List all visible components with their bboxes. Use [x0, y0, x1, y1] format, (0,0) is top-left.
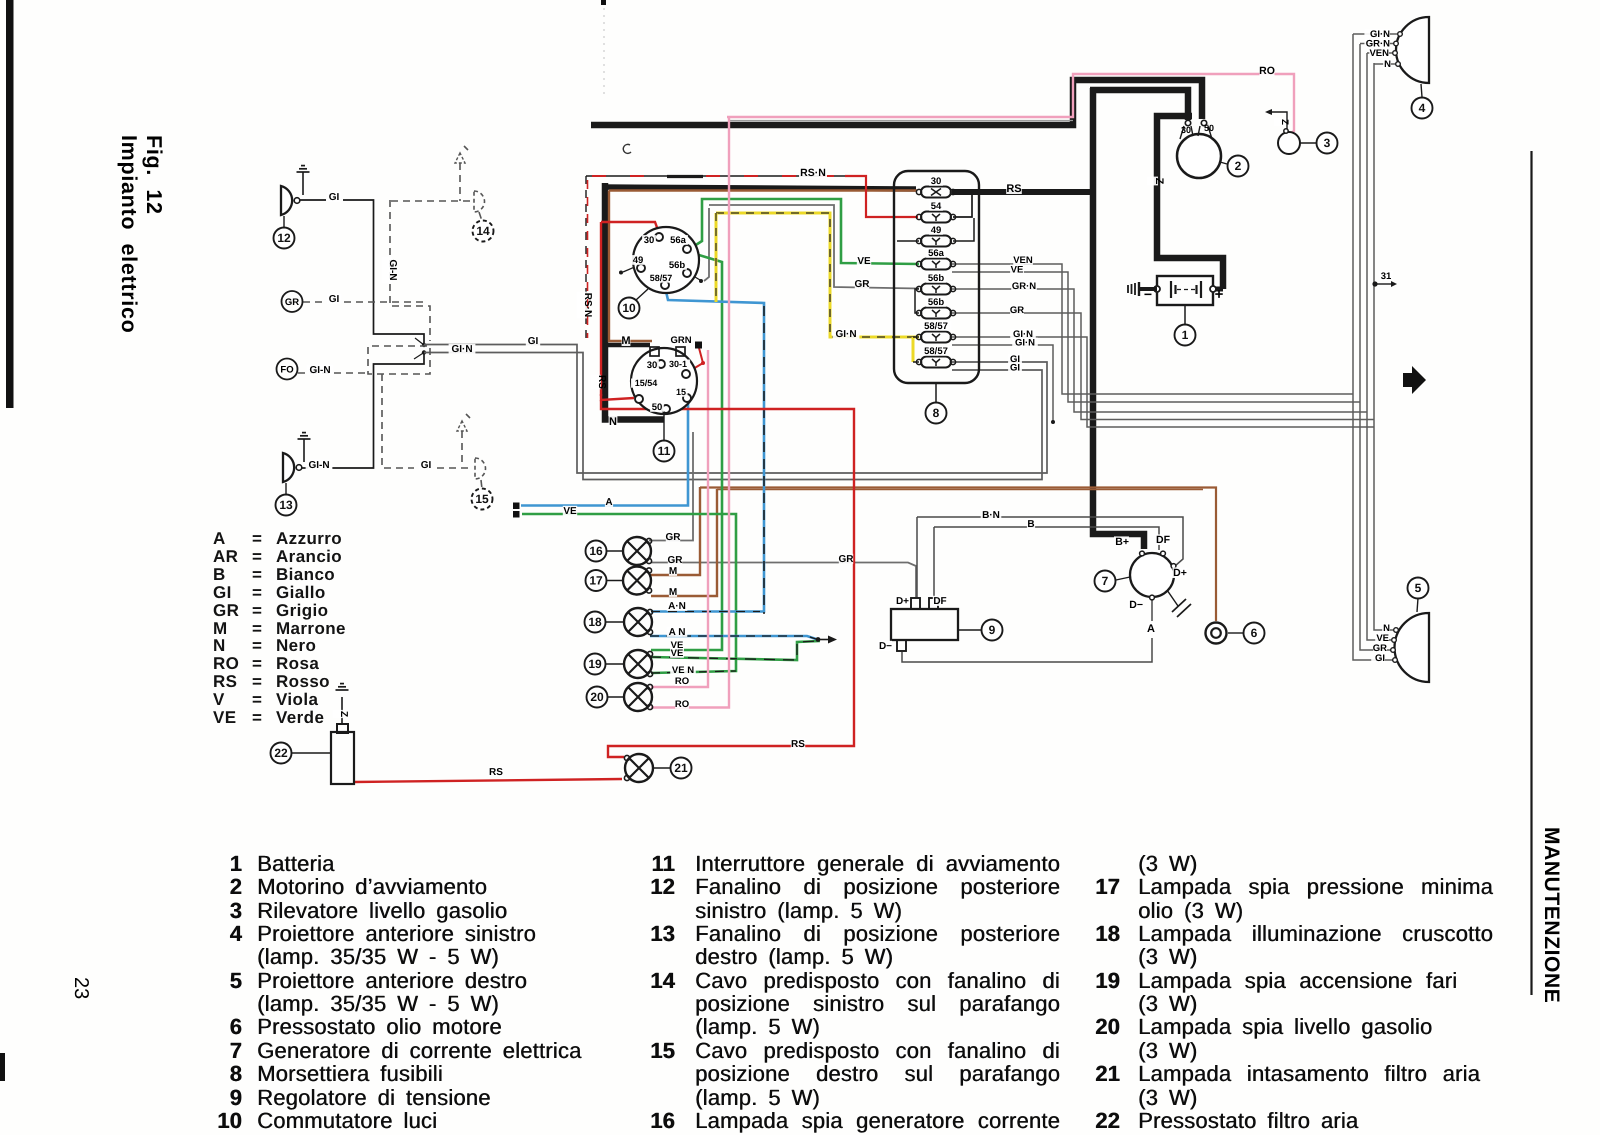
svg-text:49: 49: [931, 225, 942, 236]
svg-text:GR: GR: [839, 554, 855, 565]
svg-text:GR: GR: [666, 532, 682, 543]
svg-text:49: 49: [633, 255, 644, 266]
svg-text:15: 15: [475, 492, 489, 506]
svg-text:GI·N: GI·N: [835, 329, 856, 340]
svg-text:6: 6: [1251, 626, 1258, 640]
svg-text:B+: B+: [1115, 536, 1129, 548]
svg-text:VE: VE: [563, 506, 577, 517]
svg-text:4: 4: [1419, 101, 1426, 115]
svg-text:2: 2: [1235, 159, 1242, 173]
svg-text:FO: FO: [280, 365, 293, 376]
svg-text:GI: GI: [329, 294, 340, 305]
svg-text:D−: D−: [879, 641, 892, 652]
svg-text:GR: GR: [285, 297, 299, 308]
svg-text:14: 14: [476, 224, 490, 238]
svg-text:18: 18: [588, 615, 602, 629]
svg-text:RS: RS: [489, 767, 503, 778]
svg-text:VE: VE: [857, 256, 871, 267]
svg-text:GI-N: GI-N: [309, 365, 330, 376]
svg-text:VEN: VEN: [1369, 48, 1389, 59]
svg-text:DF: DF: [933, 596, 946, 607]
svg-text:8: 8: [933, 406, 940, 420]
svg-text:GR: GR: [855, 279, 871, 290]
svg-text:58/57: 58/57: [924, 321, 948, 332]
svg-text:GR: GR: [1010, 305, 1024, 316]
svg-text:RS·N: RS·N: [582, 293, 593, 317]
svg-text:GI: GI: [329, 192, 340, 203]
svg-text:GI: GI: [1375, 653, 1385, 664]
svg-text:16: 16: [589, 544, 603, 558]
svg-text:A N: A N: [669, 627, 686, 638]
svg-text:RS: RS: [596, 375, 607, 389]
svg-text:B·N: B·N: [982, 510, 1000, 521]
svg-text:A: A: [1147, 623, 1155, 635]
svg-text:RO: RO: [1259, 65, 1275, 77]
svg-text:GRN: GRN: [670, 335, 691, 346]
svg-text:D+: D+: [896, 596, 909, 607]
svg-text:VE: VE: [1011, 265, 1024, 276]
svg-text:58/57: 58/57: [650, 273, 673, 283]
svg-text:15/54: 15/54: [635, 378, 658, 388]
svg-text:56b: 56b: [928, 273, 945, 284]
svg-text:58/57: 58/57: [924, 346, 948, 357]
svg-text:7: 7: [1102, 574, 1109, 588]
svg-text:19: 19: [588, 657, 602, 671]
svg-text:11: 11: [658, 444, 671, 458]
svg-text:30: 30: [644, 235, 655, 246]
svg-text:30: 30: [1181, 125, 1191, 135]
svg-text:GR·N: GR·N: [1012, 281, 1036, 292]
svg-text:B: B: [1027, 519, 1034, 530]
svg-text:RS: RS: [1006, 183, 1021, 195]
svg-text:N: N: [609, 416, 617, 428]
svg-text:9: 9: [989, 623, 996, 637]
svg-text:56a: 56a: [670, 235, 687, 246]
svg-text:GI·N: GI·N: [1015, 338, 1035, 349]
svg-text:Z: Z: [1279, 119, 1290, 125]
svg-text:54: 54: [931, 201, 942, 212]
svg-text:20: 20: [590, 690, 604, 704]
svg-text:3: 3: [1324, 136, 1331, 150]
svg-text:GI: GI: [421, 460, 432, 471]
svg-text:D+: D+: [1173, 567, 1187, 579]
svg-text:M: M: [669, 587, 677, 598]
svg-text:15: 15: [676, 387, 686, 397]
svg-text:56b: 56b: [928, 297, 945, 308]
svg-text:M: M: [621, 335, 630, 347]
svg-text:31: 31: [1381, 271, 1392, 282]
svg-text:RO: RO: [675, 699, 689, 710]
svg-text:VE N: VE N: [672, 665, 694, 676]
svg-text:N: N: [1384, 59, 1391, 70]
svg-text:13: 13: [279, 498, 293, 512]
svg-text:Z: Z: [1153, 178, 1165, 185]
svg-text:Z: Z: [338, 711, 349, 717]
svg-text:+: +: [1215, 286, 1224, 303]
svg-text:1: 1: [1182, 328, 1189, 342]
svg-text:50: 50: [1204, 123, 1214, 133]
svg-text:5: 5: [1415, 581, 1422, 595]
svg-text:10: 10: [622, 301, 636, 315]
svg-text:GI-N: GI-N: [387, 259, 398, 280]
svg-text:A: A: [605, 497, 612, 508]
svg-text:12: 12: [277, 231, 291, 245]
svg-text:RS·N: RS·N: [800, 167, 826, 179]
svg-text:−: −: [1144, 286, 1152, 302]
svg-text:GI·N: GI·N: [451, 344, 472, 355]
svg-text:17: 17: [589, 574, 603, 588]
svg-text:GI-N: GI-N: [308, 460, 329, 471]
svg-text:56a: 56a: [928, 248, 945, 259]
svg-text:30-1: 30-1: [669, 359, 687, 369]
svg-text:30: 30: [931, 176, 942, 187]
svg-text:21: 21: [674, 761, 688, 775]
svg-text:A·N: A·N: [668, 601, 686, 612]
svg-text:22: 22: [274, 746, 288, 760]
svg-text:RS: RS: [791, 739, 805, 750]
svg-text:D−: D−: [1129, 599, 1143, 611]
svg-text:M: M: [669, 566, 677, 577]
svg-text:56b: 56b: [669, 260, 686, 271]
svg-text:GR: GR: [668, 555, 684, 566]
svg-text:VE: VE: [671, 648, 684, 659]
svg-text:RO: RO: [675, 676, 689, 687]
svg-text:30: 30: [647, 360, 658, 371]
svg-text:DF: DF: [1156, 534, 1171, 546]
svg-text:50: 50: [652, 402, 663, 413]
svg-text:GI: GI: [1010, 363, 1020, 374]
svg-text:GI: GI: [528, 336, 539, 347]
